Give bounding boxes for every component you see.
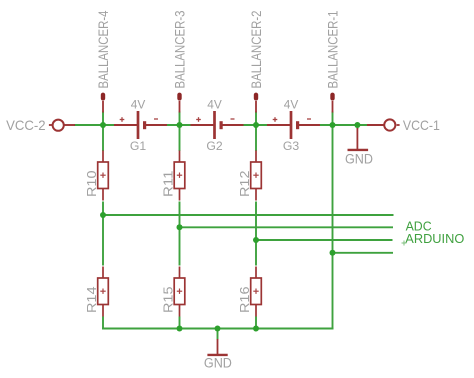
junction node R10/R14 tap <box>100 212 106 218</box>
svg-text:BALLANCER-3: BALLANCER-3 <box>172 10 188 88</box>
label: G1 value 4V <box>131 97 146 111</box>
resistor R12 <box>251 151 262 201</box>
label: net name BALLANCER-4 <box>95 10 111 88</box>
label: resistor name R16 <box>237 287 252 314</box>
label: GND (bottom) <box>204 355 232 370</box>
pin header BALLANCER-2 (connector pin with end marker) <box>255 95 257 113</box>
wire: tap line 3 (from R12/R16 node to ARDUINO header) <box>256 239 393 241</box>
svg-text:R11: R11 <box>161 171 176 198</box>
junction node BALLANCER-1 on bus <box>330 122 336 128</box>
pin: G1 positive pin <box>114 124 137 126</box>
junction node GND on bottom bus <box>215 326 221 332</box>
label: G1 minus mark <box>154 118 158 120</box>
label: G2 value 4V <box>207 97 222 111</box>
resistor R15 <box>174 267 185 317</box>
label: G2 plus mark <box>196 117 201 122</box>
pin header BALLANCER-4 (connector pin with end marker) <box>102 95 104 113</box>
label: G2 name <box>206 139 223 153</box>
junction node BALLANCER-2 on bus <box>253 122 259 128</box>
junction node GND stub on bus <box>354 122 360 128</box>
label: net ADC <box>406 219 432 233</box>
resistor R14 <box>98 267 109 317</box>
svg-text:4V: 4V <box>207 97 222 111</box>
label: GND (right) <box>345 152 373 167</box>
pin: G2 positive pin <box>191 124 214 126</box>
label: net name BALLANCER-1 <box>325 10 341 88</box>
pin: VCC-1 supply pin stub <box>367 124 400 126</box>
wire: R16 bottom to bottom bus <box>255 317 257 330</box>
label: G1 name <box>130 139 147 153</box>
pin: G1 negative pin <box>145 124 167 126</box>
label: G1 plus mark <box>120 117 125 122</box>
pin: G2 negative pin <box>222 124 244 126</box>
svg-text:VCC-2: VCC-2 <box>6 117 46 133</box>
pin header BALLANCER-3 (connector pin with end marker) <box>179 95 181 113</box>
pin: G3 negative pin <box>298 124 320 126</box>
junction node R16 on bottom bus <box>253 326 259 332</box>
wire: R10 bottom down to R14 top <box>102 202 104 266</box>
junction node BALLANCER-4 on bus <box>100 122 106 128</box>
svg-text:R12: R12 <box>237 171 252 198</box>
pin: VCC-2 supply pin stub <box>49 124 75 126</box>
svg-text:4V: 4V <box>284 97 299 111</box>
label: resistor name R10 <box>84 171 99 198</box>
battery G2 short (-) plate <box>220 121 223 129</box>
wire: R11 bottom down to R15 top <box>179 202 181 266</box>
label: resistor name R12 <box>237 171 252 198</box>
resistor R10 <box>98 151 109 201</box>
resistor R11 <box>174 151 185 201</box>
battery G3 long (+) plate <box>290 111 293 139</box>
junction node R15 on bottom bus <box>177 326 183 332</box>
wire: bus segment G2 to BALLANCER-2 node <box>243 124 269 126</box>
svg-text:BALLANCER-4: BALLANCER-4 <box>95 10 111 88</box>
wire: tap line 2 (from R11/R15 node to ADC header) <box>180 226 394 228</box>
svg-text:G3: G3 <box>283 139 300 153</box>
label: resistor name R14 <box>84 287 99 314</box>
svg-text:ARDUINO: ARDUINO <box>405 232 464 246</box>
wire: bus segment VCC-2 to G1 <box>74 124 115 126</box>
wire: R15 bottom to bottom bus <box>179 317 181 330</box>
wire: BALLANCER-4 pin node down to R10 <box>102 112 104 152</box>
battery G1 short (-) plate <box>143 121 146 129</box>
svg-text:GND: GND <box>345 152 373 167</box>
label: net name BALLANCER-3 <box>172 10 188 88</box>
svg-text:BALLANCER-1: BALLANCER-1 <box>325 10 341 88</box>
wire: BALLANCER-3 pin node down to R11 <box>179 112 181 152</box>
svg-text:GND: GND <box>204 355 232 370</box>
label: G3 name <box>283 139 300 153</box>
resistor R16 <box>251 267 262 317</box>
pin header BALLANCER-1 (connector pin with end marker) <box>332 95 334 113</box>
label: G3 plus mark <box>273 117 278 122</box>
wire: tap line 1 (from R10/R14 node to ADC header) <box>103 214 394 216</box>
label origin cross for ARDUINO <box>402 241 407 246</box>
wire: bus segment G3 to GND/VCC-1 <box>320 124 368 126</box>
battery G3 short (-) plate <box>296 121 299 129</box>
junction node BALLANCER-3 on bus <box>177 122 183 128</box>
svg-text:R10: R10 <box>84 171 99 198</box>
wire: stub to GND (right) <box>356 125 358 129</box>
label: G3 value 4V <box>284 97 299 111</box>
wire: bottom bus <box>102 328 334 330</box>
label: resistor name R11 <box>161 171 176 198</box>
pin: G3 positive pin <box>267 124 290 126</box>
label: resistor name R15 <box>161 287 176 314</box>
svg-text:R16: R16 <box>237 287 252 314</box>
wire: tap line 4 (from right vertical to header) <box>333 252 394 254</box>
wire: bus segment G1 to BALLANCER-3 node <box>166 124 192 126</box>
label: net ARDUINO <box>405 232 464 246</box>
label: G2 minus mark <box>231 118 235 120</box>
junction node R12/R16 tap <box>253 237 259 243</box>
junction node right vertical tap <box>330 250 336 256</box>
battery G1 long (+) plate <box>137 111 140 139</box>
wire: stub to GND (bottom) <box>217 329 219 340</box>
label: VCC-2 <box>6 117 46 133</box>
label: net name BALLANCER-2 <box>248 10 264 88</box>
power symbol VCC-1 <box>384 119 395 130</box>
wire: R14 bottom to bottom bus <box>102 317 104 330</box>
svg-text:R15: R15 <box>161 287 176 314</box>
svg-text:G1: G1 <box>130 139 147 153</box>
wire: BALLANCER-1 pin node down right vertical to bottom bus <box>332 112 334 330</box>
svg-text:VCC-1: VCC-1 <box>403 117 440 133</box>
battery G2 long (+) plate <box>213 111 216 139</box>
ground symbol GND (bottom) <box>207 339 227 355</box>
ground symbol GND (right) <box>348 128 369 150</box>
junction node R11/R15 tap <box>177 224 183 230</box>
power symbol VCC-2 <box>53 120 64 131</box>
svg-text:R14: R14 <box>84 287 99 314</box>
svg-text:BALLANCER-2: BALLANCER-2 <box>248 10 264 88</box>
wire: R12 bottom down to R16 top <box>255 202 257 266</box>
label: G3 minus mark <box>307 118 311 120</box>
svg-text:G2: G2 <box>206 139 223 153</box>
svg-text:4V: 4V <box>131 97 146 111</box>
wire: BALLANCER-2 pin node down to R12 <box>255 112 257 152</box>
label: VCC-1 <box>403 117 440 133</box>
